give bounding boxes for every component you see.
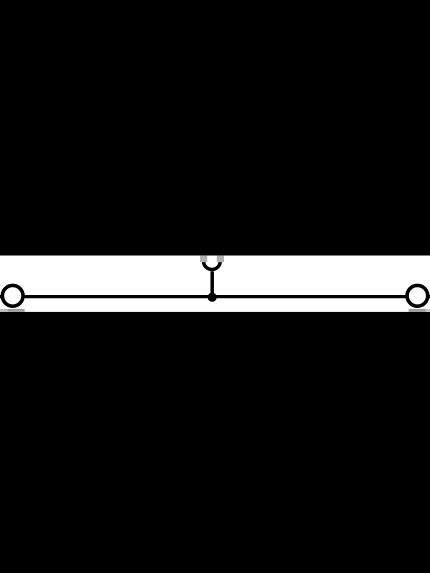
terminal left (open circle) [2,285,23,306]
stem wire (vertical tap from junction to contact) [210,271,214,297]
wire (horizontal net across band) [0,295,430,298]
pin pad right (gray block on right contact arm) [217,256,224,263]
terminal right (open circle) [407,285,428,306]
pad left (gray contact strip under left terminal) [0,309,8,312]
junction dot (node on wire) [208,293,217,302]
pad right (gray contact strip under right terminal) [409,309,426,312]
socket contact (half-circle opening upward) [204,261,221,269]
pin pad left (gray block on left contact arm) [200,256,207,263]
